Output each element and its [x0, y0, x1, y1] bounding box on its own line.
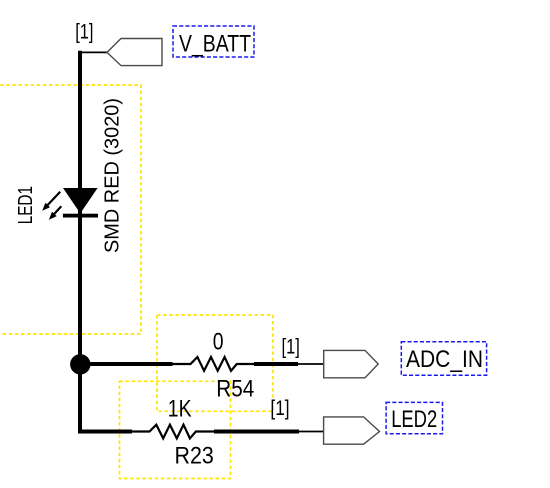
svg-text:[1]: [1] — [270, 397, 289, 420]
wire: top horizontal junction to R54 left lead — [78, 362, 173, 366]
LED1 diode triangle — [63, 188, 98, 213]
svg-text:1K: 1K — [168, 396, 192, 423]
svg-text:R23: R23 — [175, 442, 214, 469]
wire stub to LED2 flag — [299, 431, 324, 433]
wire: R23 right lead to LED2 flag stub — [214, 430, 299, 434]
svg-text:LED1: LED1 — [15, 186, 37, 224]
svg-text:R54: R54 — [216, 376, 254, 403]
LED1 emission arrow 2 — [49, 206, 61, 220]
net label box V_BATT — [173, 26, 254, 57]
LED1 emission arrow 1 — [42, 192, 60, 211]
LED1 compile-mask yellow box — [0, 85, 141, 334]
svg-text:SMD RED (3020): SMD RED (3020) — [102, 98, 124, 253]
wire: bottom horizontal corner to R23 left lead — [78, 430, 132, 434]
wire stub to V_BATT flag — [80, 51, 107, 53]
net label box LED2 — [386, 402, 442, 433]
svg-text:0: 0 — [213, 328, 224, 355]
wire stub to ADC_IN flag — [298, 363, 324, 365]
resistor R54 compile-mask yellow box — [157, 315, 273, 411]
wire: V_BATT vertical down to bottom corner — [78, 51, 82, 430]
resistor R23 compile-mask yellow box — [120, 381, 231, 478]
power port flag V_BATT (points left) — [107, 39, 162, 66]
svg-text:[1]: [1] — [282, 336, 300, 359]
port flag ADC_IN (points right) — [324, 350, 379, 377]
net label box ADC_IN — [401, 342, 486, 375]
resistor R23 zigzag — [132, 425, 214, 439]
wire: R54 right lead to ADC_IN flag stub — [254, 362, 298, 366]
LED1 cathode bar — [63, 214, 98, 218]
svg-text:LED2: LED2 — [391, 406, 437, 433]
port flag LED2 (points right) — [324, 417, 380, 444]
junction node — [70, 354, 90, 374]
svg-text:ADC_IN: ADC_IN — [406, 346, 483, 373]
svg-text:[1]: [1] — [75, 21, 93, 44]
svg-text:V_BATT: V_BATT — [179, 31, 251, 58]
resistor R54 zigzag — [172, 357, 254, 371]
